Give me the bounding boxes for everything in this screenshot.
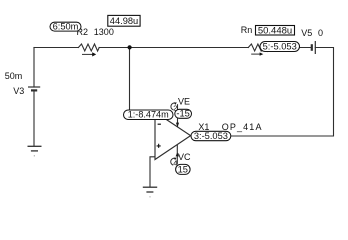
svg-text:V3: V3 bbox=[13, 86, 24, 96]
svg-text:Rn: Rn bbox=[241, 25, 253, 35]
svg-text:50m: 50m bbox=[5, 71, 23, 81]
svg-text:5:-5.053: 5:-5.053 bbox=[263, 42, 297, 52]
svg-text:50.448u: 50.448u bbox=[258, 25, 292, 36]
svg-text:15: 15 bbox=[178, 165, 188, 175]
svg-text:VC: VC bbox=[178, 152, 191, 162]
svg-text:6:50m: 6:50m bbox=[53, 21, 79, 31]
svg-text:-15: -15 bbox=[176, 109, 189, 119]
svg-text:V5: V5 bbox=[301, 28, 312, 38]
svg-text:44.98u: 44.98u bbox=[110, 16, 138, 26]
svg-text:3:-5.053: 3:-5.053 bbox=[194, 131, 228, 141]
svg-text:VE: VE bbox=[178, 97, 190, 107]
svg-text:1:-8.474m: 1:-8.474m bbox=[128, 110, 169, 120]
svg-text:0: 0 bbox=[318, 28, 323, 38]
svg-text:1300: 1300 bbox=[94, 27, 114, 37]
